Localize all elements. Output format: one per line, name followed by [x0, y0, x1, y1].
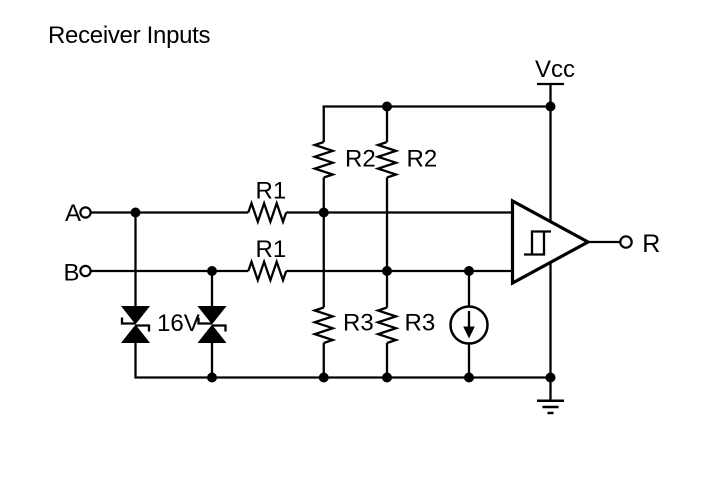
resistor R1 (series, input A)	[248, 203, 286, 221]
junction dot top rail at column 2	[382, 102, 392, 112]
svg-text:R2: R2	[345, 146, 376, 173]
wire input B (terminal to comparator)	[92, 270, 249, 272]
svg-text:A: A	[65, 200, 81, 227]
wire input B right segment	[286, 270, 512, 272]
svg-text:16V: 16V	[157, 310, 200, 337]
svg-text:R1: R1	[256, 178, 287, 205]
terminal A	[80, 207, 90, 217]
junction dot B line at D2	[207, 266, 217, 276]
resistor R3 (pull-down for B, column 2)	[378, 308, 396, 344]
resistor R2 (pull-up for B, column 2)	[378, 142, 396, 178]
junction dot B line at current source	[464, 266, 474, 276]
resistor R1 (series, input B)	[248, 262, 286, 280]
junction dot top rail at Vcc	[546, 102, 556, 112]
svg-text:Receiver Inputs: Receiver Inputs	[48, 22, 211, 49]
junction dot bottom rail at column 1	[319, 373, 329, 383]
wire zener D2 lower (D2 to bottom rail)	[211, 343, 213, 378]
wire column 1 upper (top rail to R2 zigzag)	[323, 106, 325, 143]
wire Vcc vertical (x=550.5 from Vcc bar down behind comparator to ground)	[549, 84, 551, 401]
terminal R (output)	[620, 236, 631, 247]
zener diode D1 (bidirectional TVS on A)	[122, 307, 149, 343]
wire column 2 middle (R2 across A line to B line and R3)	[386, 178, 388, 308]
wire zener D1 upper (A junction down to D1)	[134, 213, 136, 307]
wire comparator output	[588, 241, 620, 243]
wire zener D1 lower (D1 to bottom rail)	[134, 343, 136, 378]
junction dot B line at column 2	[382, 266, 392, 276]
zener diode D2 (bidirectional TVS on B)	[199, 307, 226, 343]
svg-text:R3: R3	[343, 310, 374, 337]
resistor R2 (pull-up for A, column 1)	[315, 142, 333, 178]
junction dot bottom rail at column 2	[382, 373, 392, 383]
junction dot bottom rail at ground	[546, 373, 556, 383]
svg-text:R: R	[642, 230, 660, 258]
comparator U1 (receiver with hysteresis)	[513, 201, 589, 283]
terminal B	[80, 266, 90, 276]
wire input A right segment	[286, 211, 512, 213]
wire bottom rail	[135, 376, 551, 378]
wire column 2 lower (R3 to bottom rail)	[386, 343, 388, 378]
junction dot bottom rail at current source	[464, 373, 474, 383]
svg-text:R1: R1	[256, 236, 287, 263]
svg-text:Vcc: Vcc	[535, 56, 575, 83]
junction dot bottom rail at D2	[207, 373, 217, 383]
current source I1	[451, 307, 488, 344]
ground	[537, 401, 564, 413]
wire current source upper (B line to I1)	[468, 271, 470, 307]
svg-text:R3: R3	[405, 310, 436, 337]
wire column 1 lower (R3 to bottom rail)	[323, 343, 325, 378]
wire column 2 upper (top rail to R2 zigzag)	[386, 107, 388, 143]
wire column 1 middle (R2 to A line to R3)	[323, 178, 325, 308]
svg-text:B: B	[64, 260, 80, 287]
wire input A (terminal to comparator)	[92, 211, 249, 213]
wire current source lower (I1 to bottom rail)	[468, 344, 470, 378]
junction dot A line at column 1	[319, 208, 329, 218]
svg-text:R2: R2	[407, 146, 438, 173]
wire top rail	[323, 105, 551, 107]
wire zener D2 upper (B junction down to D2)	[211, 271, 213, 307]
resistor R3 (pull-down for A, column 1)	[315, 308, 333, 344]
power symbol Vcc	[535, 56, 575, 84]
junction dot A line at D1	[131, 208, 141, 218]
